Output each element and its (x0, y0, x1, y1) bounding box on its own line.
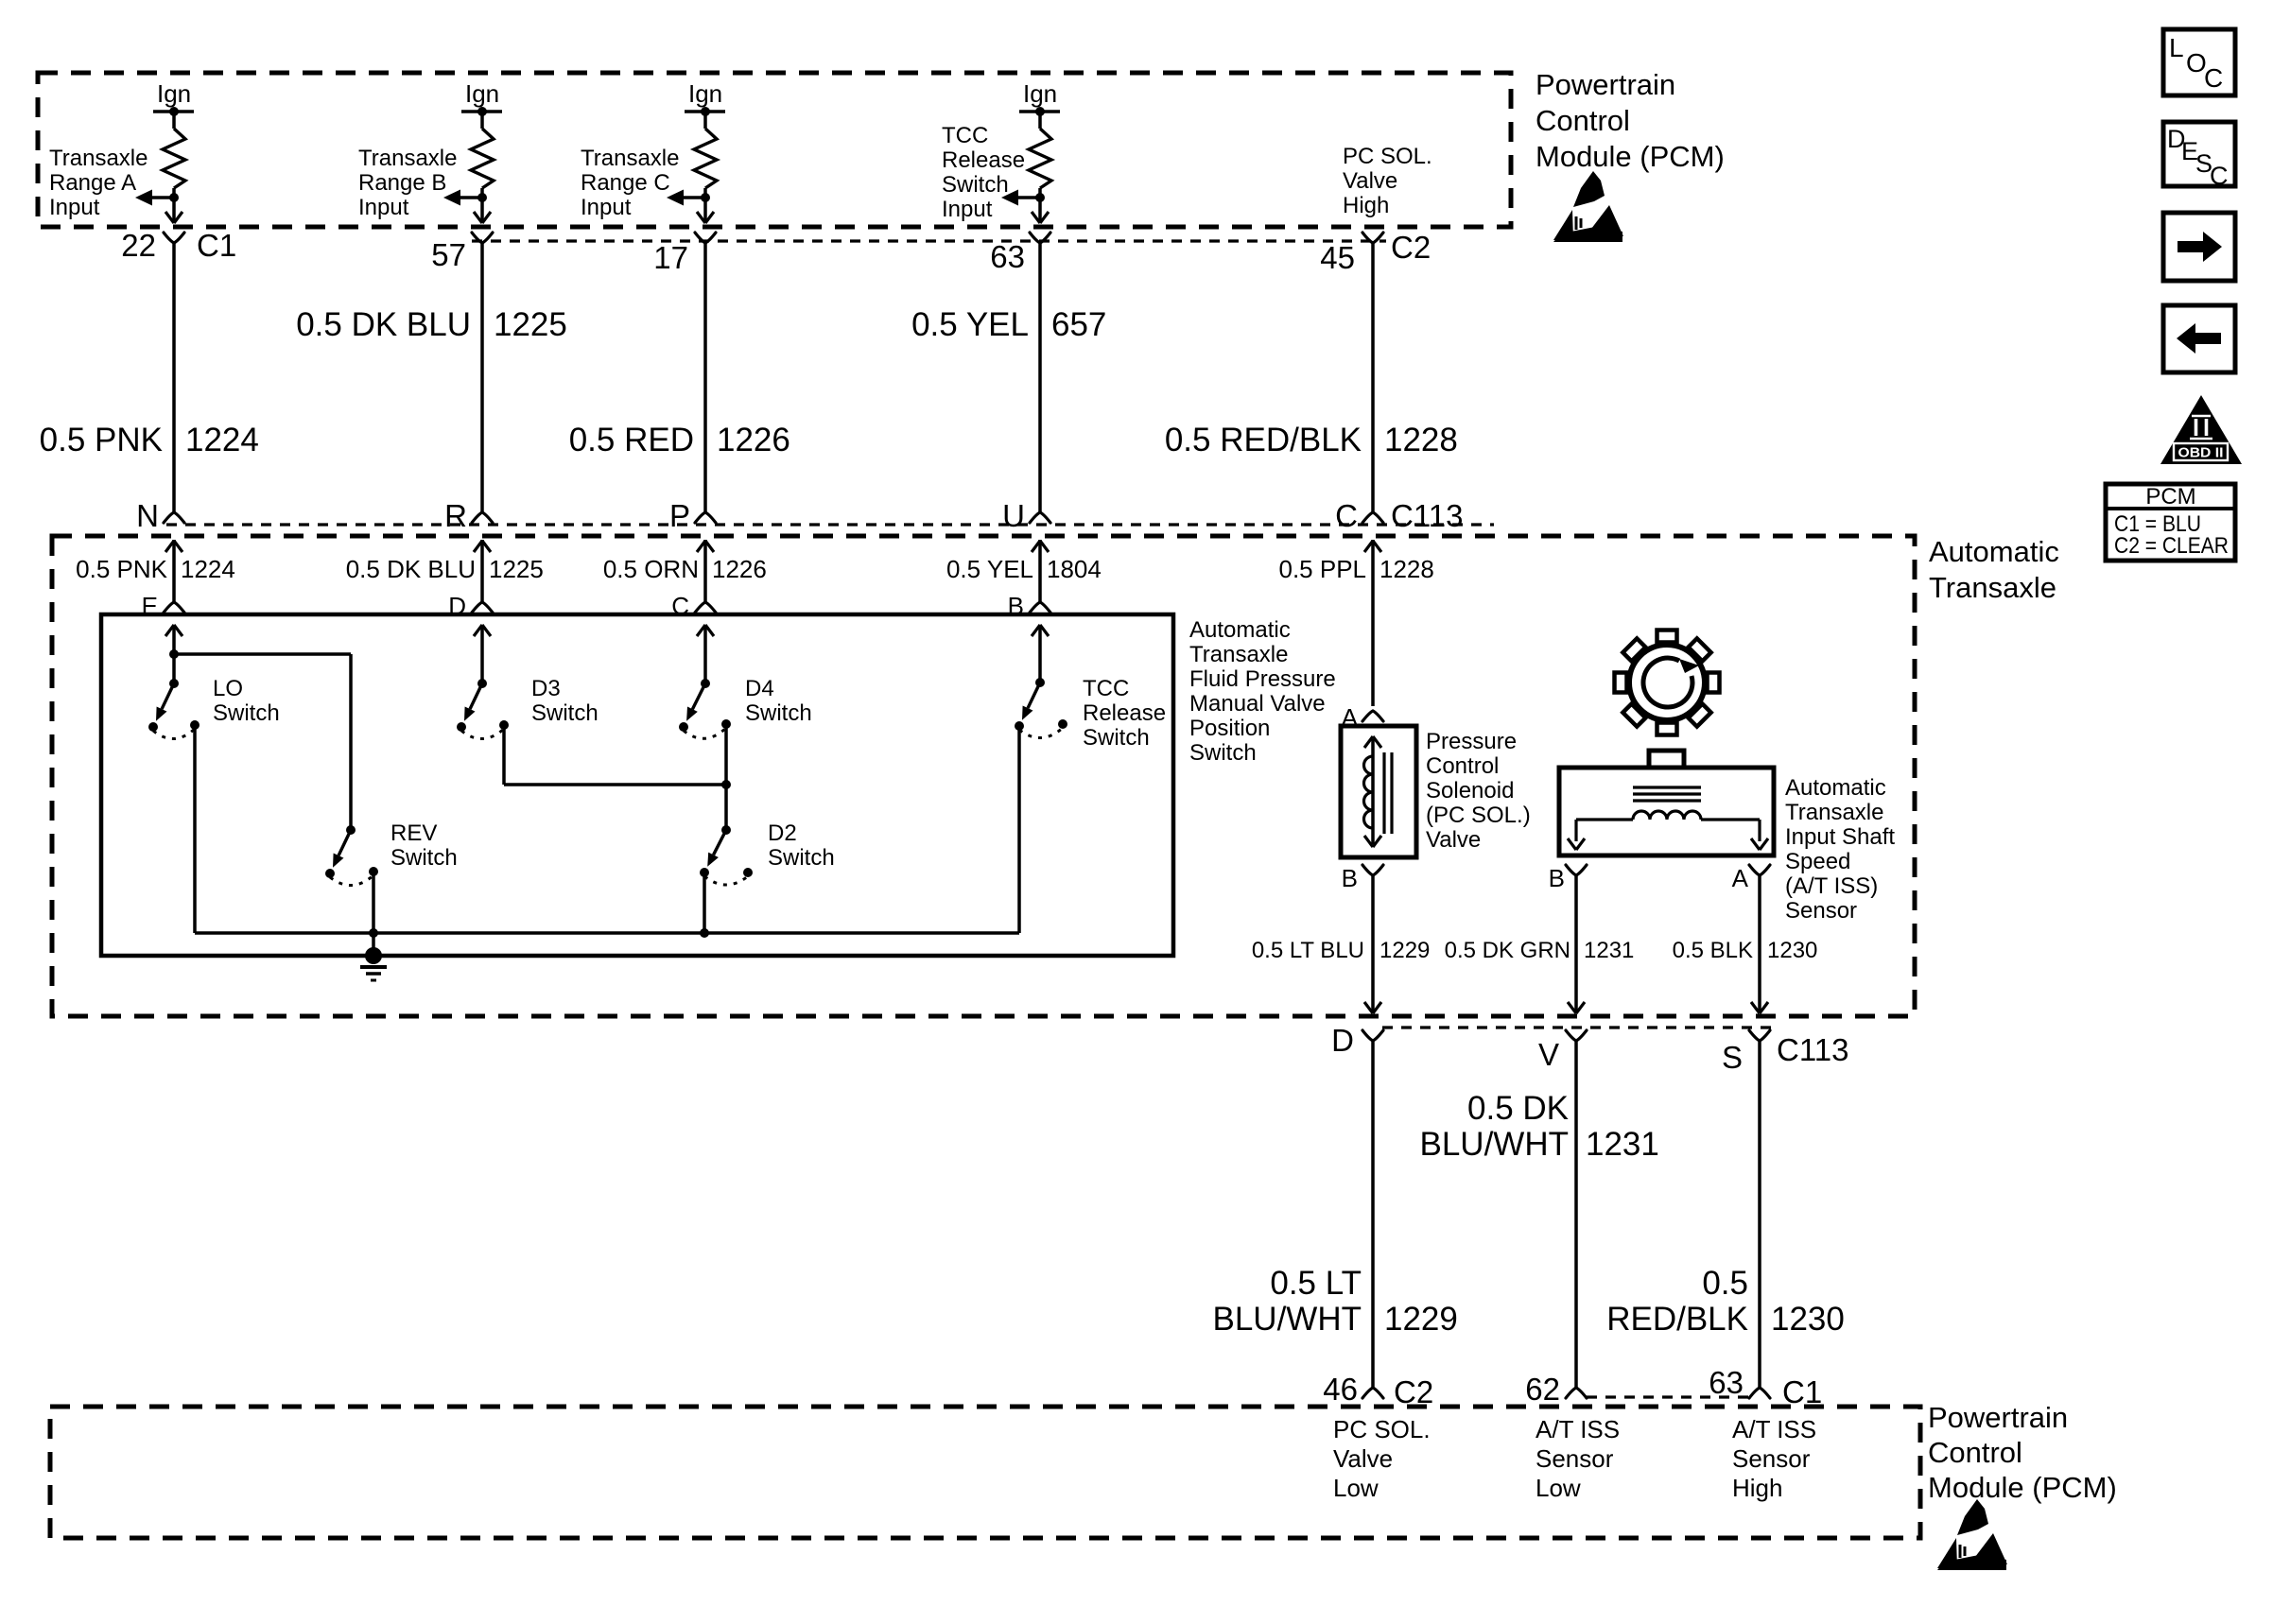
wire to connector (Transaxle Range C) (697, 198, 714, 223)
connector pin P C113 (669, 498, 690, 533)
svg-text:Powertrain: Powertrain (1928, 1401, 2068, 1434)
svg-text:Transaxle: Transaxle (1189, 642, 1288, 667)
pin C (position switch) (671, 592, 689, 620)
wire 0.5 PNK 1224 into transaxle (164, 540, 184, 613)
wire to connector (TCC Release) (1032, 198, 1049, 223)
svg-text:C: C (2204, 63, 2223, 93)
wire 0.5 RED/BLK 1230 (1749, 1041, 1770, 1398)
wire label 0.5 BLK 1230 (1673, 938, 1818, 963)
label: A/T ISS Sensor Low (1536, 1415, 1620, 1502)
wire label 0.5 PNK 1224 (40, 422, 259, 458)
wire entering switch box (697, 625, 714, 683)
connector C1 pin 22 (121, 228, 236, 263)
svg-text:Module (PCM): Module (PCM) (1536, 140, 1725, 173)
switch REV (325, 825, 378, 886)
wire 0.5 RED 1226 (695, 243, 716, 523)
wire REV to ground (369, 872, 378, 956)
wire label 0.5 YEL 657 (911, 306, 1106, 343)
input arrow (TCC Release) (1001, 190, 1040, 206)
svg-text:BLU/WHT: BLU/WHT (1213, 1301, 1362, 1338)
svg-text:Switch: Switch (213, 700, 280, 726)
connector pin 46 C2 (1323, 1372, 1433, 1409)
svg-text:0.5 YEL: 0.5 YEL (946, 555, 1033, 583)
svg-text:Low: Low (1333, 1474, 1379, 1502)
svg-text:0.5 DK: 0.5 DK (1467, 1090, 1569, 1127)
label: REV Switch (390, 821, 458, 871)
wire 0.5 ORN 1226 into transaxle (695, 540, 716, 613)
svg-text:C2: C2 (1394, 1374, 1433, 1409)
svg-text:657: 657 (1051, 306, 1106, 343)
connector pin 57 (431, 233, 493, 272)
svg-text:1225: 1225 (494, 306, 567, 343)
svg-text:Control: Control (1426, 753, 1499, 779)
switch D4 (679, 679, 731, 738)
svg-text:Ign: Ign (465, 79, 499, 108)
svg-text:PC SOL.: PC SOL. (1343, 144, 1432, 169)
label: Transaxle Range C Input (581, 146, 679, 220)
table: PCM connector legend (2106, 484, 2235, 561)
svg-text:D2: D2 (768, 821, 797, 846)
svg-text:Automatic: Automatic (1189, 617, 1291, 643)
label: Powertrain Control Module (PCM) (top) (1536, 68, 1725, 173)
svg-text:Ign: Ign (157, 79, 191, 108)
label: TCC Release Switch Input (942, 123, 1025, 222)
svg-text:C2 = CLEAR: C2 = CLEAR (2114, 533, 2229, 559)
Automatic Transaxle box (52, 536, 1915, 1016)
solenoid pin B (1342, 864, 1383, 892)
fluid pressure manual valve position switch box (101, 614, 1173, 956)
svg-text:Manual Valve: Manual Valve (1189, 691, 1326, 717)
svg-text:0.5 PPL: 0.5 PPL (1278, 555, 1366, 583)
connector pin S C113 (1722, 1030, 1770, 1075)
icon: OBD II triangle (2160, 395, 2242, 464)
svg-text:46: 46 (1323, 1372, 1358, 1407)
connector pin U C113 (1002, 498, 1025, 533)
svg-text:Input: Input (49, 195, 100, 220)
icon: LOC box (2163, 29, 2235, 95)
svg-text:1224: 1224 (185, 422, 259, 458)
svg-text:Switch: Switch (1189, 740, 1257, 766)
svg-text:Transaxle: Transaxle (358, 146, 457, 171)
svg-text:LO: LO (213, 676, 243, 701)
svg-text:0.5 PNK: 0.5 PNK (76, 555, 167, 583)
svg-text:Switch: Switch (768, 845, 835, 871)
wire label 0.5 ORN 1226 (603, 555, 767, 583)
svg-text:17: 17 (653, 240, 688, 275)
svg-text:0.5 BLK: 0.5 BLK (1673, 938, 1753, 963)
switch LO (148, 679, 200, 739)
label: Powertrain Control Module (PCM) (bottom) (1928, 1401, 2117, 1504)
connector line C2 (fine dashed) (472, 239, 1386, 242)
svg-text:62: 62 (1525, 1372, 1560, 1407)
wire 0.5 DK BLU 1225 into transaxle (472, 540, 493, 613)
svg-text:Sensor: Sensor (1536, 1444, 1614, 1473)
wire label 0.5 DK GRN 1231 (1445, 938, 1635, 963)
svg-text:Powertrain: Powertrain (1536, 68, 1675, 101)
wire label 0.5 LT BLU/WHT 1229 (1213, 1265, 1458, 1338)
ground bus wire (195, 931, 1019, 935)
svg-text:PC SOL.: PC SOL. (1333, 1415, 1431, 1443)
svg-text:Speed: Speed (1785, 849, 1850, 874)
svg-text:Sensor: Sensor (1732, 1444, 1811, 1473)
svg-text:Valve: Valve (1343, 168, 1397, 194)
svg-text:L: L (2169, 33, 2184, 62)
connector line C113 (bottom, fine dashed) (1382, 1026, 1776, 1028)
Ign feed node (Transaxle Range A) (153, 79, 194, 116)
svg-text:S: S (1722, 1040, 1743, 1075)
svg-text:Switch: Switch (942, 172, 1009, 198)
svg-text:REV: REV (390, 821, 437, 846)
switch D3 (457, 679, 509, 739)
wire label 0.5 DK BLU 1225 (296, 306, 567, 343)
svg-text:0.5 DK BLU: 0.5 DK BLU (346, 555, 476, 583)
pin B (position switch) (1008, 592, 1024, 620)
svg-text:0.5 ORN: 0.5 ORN (603, 555, 699, 583)
wire label 0.5 DK BLU 1225 (346, 555, 544, 583)
wire label 0.5 PPL 1228 (1278, 555, 1433, 583)
svg-text:Range C: Range C (581, 170, 670, 196)
wire to connector (Transaxle Range A) (165, 198, 182, 223)
wire 0.5 DK BLU/WHT 1231 (1566, 1041, 1587, 1398)
svg-text:Range B: Range B (358, 170, 446, 196)
connector pin N C113 (136, 498, 159, 533)
svg-text:0.5 LT BLU: 0.5 LT BLU (1252, 938, 1364, 963)
label C113 (middle) (1391, 498, 1463, 533)
connector pin D C113 (1331, 1023, 1383, 1058)
resistor pull-up (TCC Release) (1029, 112, 1051, 188)
svg-text:OBD II: OBD II (2178, 446, 2224, 461)
svg-text:0.5: 0.5 (1702, 1265, 1748, 1302)
svg-text:Sensor: Sensor (1785, 898, 1857, 924)
connector pin 62 (1525, 1372, 1560, 1407)
PCM module box (bottom) (50, 1407, 1920, 1538)
wire label 0.5 RED 1226 (569, 422, 790, 458)
svg-text:Transaxle: Transaxle (49, 146, 147, 171)
wire 0.5 PPL to PC solenoid pin A (1342, 703, 1383, 732)
wire 0.5 BLK 1230 (1751, 875, 1768, 1013)
resistor pull-up (Transaxle Range B) (471, 112, 494, 188)
svg-text:High: High (1343, 193, 1389, 218)
svg-text:Transaxle: Transaxle (1785, 800, 1883, 825)
svg-text:63: 63 (990, 239, 1025, 274)
svg-text:PCM: PCM (2145, 484, 2195, 510)
svg-text:Solenoid: Solenoid (1426, 778, 1514, 803)
svg-text:Low: Low (1536, 1474, 1581, 1502)
input arrow (Transaxle Range A) (135, 190, 174, 206)
wire entering switch box (165, 625, 182, 683)
svg-text:R: R (444, 498, 467, 533)
svg-text:P: P (669, 498, 690, 533)
svg-text:Control: Control (1928, 1436, 2022, 1469)
svg-text:C: C (2210, 162, 2229, 190)
icon: right arrow box (2163, 213, 2235, 281)
svg-text:0.5 LT: 0.5 LT (1270, 1265, 1362, 1302)
svg-text:1224: 1224 (181, 555, 235, 583)
wire 0.5 DK GRN 1231 (1568, 875, 1585, 1013)
wire 0.5 LT BLU/WHT 1229 (1362, 1041, 1383, 1398)
svg-text:Input: Input (358, 195, 409, 220)
connector pin C C113 (1335, 498, 1358, 533)
svg-text:C1: C1 (1782, 1374, 1822, 1409)
wire 0.5 PPL 1228 into transaxle (1364, 540, 1381, 706)
svg-text:1230: 1230 (1767, 938, 1817, 963)
wire entering switch box (1032, 625, 1049, 683)
wire 0.5 DK BLU 1225 (472, 243, 493, 523)
label: D2 Switch (768, 821, 835, 871)
wire 0.5 YEL 1804 into transaxle (1030, 540, 1050, 613)
pin D (position switch) (448, 592, 466, 620)
svg-text:1804: 1804 (1047, 555, 1102, 583)
wire + node (TCC Release) (1035, 188, 1045, 202)
icon: DESC box (2163, 122, 2235, 190)
svg-text:1226: 1226 (712, 555, 767, 583)
svg-text:BLU/WHT: BLU/WHT (1420, 1126, 1570, 1163)
svg-text:1225: 1225 (489, 555, 544, 583)
pin E (position switch) (142, 592, 158, 620)
label: Automatic Transaxle Fluid Pressure Manual Valve Position Switch (1189, 617, 1336, 766)
svg-text:0.5 YEL: 0.5 YEL (911, 306, 1029, 343)
svg-text:Release: Release (942, 147, 1025, 173)
svg-text:Valve: Valve (1333, 1444, 1393, 1473)
Ign feed node (Transaxle Range B) (461, 79, 502, 116)
svg-text:22: 22 (121, 228, 156, 263)
svg-text:Module (PCM): Module (PCM) (1928, 1471, 2117, 1504)
svg-text:1226: 1226 (717, 422, 790, 458)
svg-text:0.5 PNK: 0.5 PNK (40, 422, 163, 458)
wire 0.5 YEL 657 (1030, 243, 1050, 523)
svg-text:1231: 1231 (1586, 1126, 1659, 1163)
svg-text:Transaxle: Transaxle (581, 146, 679, 171)
label: D4 Switch (745, 676, 812, 726)
svg-text:C2: C2 (1391, 230, 1431, 265)
connector pin 63 C1 (1709, 1365, 1822, 1409)
svg-text:U: U (1002, 498, 1025, 533)
wire label 0.5 PNK 1224 (76, 555, 235, 583)
svg-text:Switch: Switch (390, 845, 458, 871)
wire D3 to D4/D2 junction (504, 725, 726, 785)
svg-text:Control: Control (1536, 104, 1630, 137)
svg-text:A/T ISS: A/T ISS (1732, 1415, 1816, 1443)
svg-text:Ign: Ign (1023, 79, 1057, 108)
svg-text:Fluid Pressure: Fluid Pressure (1189, 666, 1336, 692)
svg-text:Input Shaft: Input Shaft (1785, 824, 1895, 850)
wire entering switch box (474, 625, 491, 683)
gear icon (input shaft) (1615, 631, 1720, 735)
connector line C113 (middle, fine dashed) (166, 523, 1494, 526)
connector pin V C113 (1538, 1030, 1587, 1072)
switch D2 (700, 825, 753, 885)
svg-text:TCC: TCC (942, 123, 988, 148)
label: A/T ISS Sensor High (1732, 1415, 1816, 1502)
label: Automatic Transaxle Input Shaft Speed (A/T ISS) Sensor (1785, 775, 1895, 924)
svg-text:Pressure: Pressure (1426, 729, 1517, 754)
svg-text:V: V (1538, 1037, 1559, 1072)
svg-text:1229: 1229 (1384, 1301, 1458, 1338)
svg-text:Switch: Switch (531, 700, 599, 726)
svg-text:RED/BLK: RED/BLK (1606, 1301, 1748, 1338)
wire 0.5 LT BLU 1229 (in transaxle) (1364, 875, 1381, 1013)
Ign feed node (TCC Release) (1019, 79, 1060, 116)
svg-text:D3: D3 (531, 676, 561, 701)
wire label 0.5 YEL 1804 (946, 555, 1102, 583)
svg-text:Release: Release (1083, 700, 1166, 726)
svg-text:(PC SOL.): (PC SOL.) (1426, 803, 1531, 828)
svg-text:Valve: Valve (1426, 827, 1481, 853)
svg-text:0.5 DK BLU: 0.5 DK BLU (296, 306, 471, 343)
label: Transaxle Range A Input (49, 146, 147, 220)
svg-text:0.5 DK GRN: 0.5 DK GRN (1445, 938, 1570, 963)
label: LO Switch (213, 676, 280, 726)
svg-text:Automatic: Automatic (1785, 775, 1886, 801)
svg-text:1229: 1229 (1379, 938, 1430, 963)
wire LO to ground bus (193, 725, 197, 933)
svg-text:C1: C1 (197, 228, 236, 263)
svg-text:1231: 1231 (1584, 938, 1634, 963)
svg-text:1228: 1228 (1379, 555, 1434, 583)
ground (360, 947, 387, 980)
wire label 0.5 LT BLU 1229 (1252, 938, 1431, 963)
label: PC SOL. Valve High (1343, 144, 1432, 218)
wire + node (Transaxle Range A) (169, 188, 179, 202)
sensor pin A (1732, 864, 1770, 892)
wire D2 to ground bus (700, 872, 709, 938)
sensor internals (1568, 787, 1768, 850)
wire label 0.5 RED/BLK 1228 (1165, 422, 1458, 458)
ESD sensitivity symbol (top) (1553, 171, 1623, 242)
PCM module box (top) (38, 73, 1511, 227)
input arrow (Transaxle Range B) (443, 190, 482, 206)
sensor pin B (1549, 864, 1587, 892)
svg-text:C113: C113 (1391, 498, 1463, 533)
node (LO branch) (169, 649, 351, 830)
svg-text:Range A: Range A (49, 170, 136, 196)
svg-text:A: A (1732, 864, 1749, 892)
resistor pull-up (Transaxle Range C) (694, 112, 717, 188)
svg-text:C: C (1335, 498, 1358, 533)
Ign feed node (Transaxle Range C) (685, 79, 725, 116)
svg-text:B: B (1342, 864, 1358, 892)
wire label 0.5 RED/BLK 1230 (1606, 1265, 1845, 1338)
label: Pressure Control Solenoid (PC SOL.) Valve (1426, 729, 1531, 853)
label: Automatic Transaxle (1929, 535, 2059, 604)
svg-text:0.5 RED: 0.5 RED (569, 422, 694, 458)
svg-text:N: N (136, 498, 159, 533)
label: D3 Switch (531, 676, 599, 726)
input arrow (Transaxle Range C) (667, 190, 705, 206)
wire + node (Transaxle Range C) (701, 188, 710, 202)
connector pin 17 (653, 233, 716, 275)
solenoid PC SOL valve box (1341, 726, 1416, 857)
icon: left arrow box (2163, 305, 2235, 372)
connector pin 45 C2 (1320, 230, 1431, 275)
wire label 0.5 DK BLU/WHT 1231 (1420, 1090, 1659, 1163)
svg-text:1230: 1230 (1771, 1301, 1845, 1338)
svg-text:TCC: TCC (1083, 676, 1129, 701)
svg-text:Switch: Switch (745, 700, 812, 726)
svg-text:1228: 1228 (1384, 422, 1458, 458)
resistor pull-up (Transaxle Range A) (163, 112, 185, 188)
svg-text:Automatic: Automatic (1929, 535, 2059, 568)
svg-text:B: B (1549, 864, 1565, 892)
svg-text:Switch: Switch (1083, 725, 1150, 751)
wire to connector (Transaxle Range B) (474, 198, 491, 223)
label C113 (bottom) (1777, 1032, 1848, 1067)
label: PC SOL. Valve Low (1333, 1415, 1431, 1502)
wire + node (Transaxle Range B) (477, 188, 487, 202)
svg-text:57: 57 (431, 237, 466, 272)
sensor A/T ISS box (1559, 751, 1774, 855)
svg-text:High: High (1732, 1474, 1782, 1502)
svg-text:Transaxle: Transaxle (1929, 571, 2056, 604)
label: TCC Release Switch (1083, 676, 1166, 751)
svg-text:D: D (1331, 1023, 1354, 1058)
svg-text:D4: D4 (745, 676, 774, 701)
svg-text:(A/T ISS): (A/T ISS) (1785, 873, 1878, 899)
svg-text:63: 63 (1709, 1365, 1744, 1400)
connector pin 63 (990, 233, 1050, 274)
svg-text:45: 45 (1320, 240, 1355, 275)
wire TCC contact to ground bus (1017, 726, 1021, 933)
svg-text:Input: Input (942, 197, 993, 222)
connector line C1 (bottom, fine dashed) (1587, 1395, 1749, 1398)
ESD sensitivity symbol (bottom) (1937, 1499, 2007, 1570)
svg-text:C113: C113 (1777, 1032, 1848, 1067)
svg-text:0.5 RED/BLK: 0.5 RED/BLK (1165, 422, 1362, 458)
wire 0.5 PNK 1224 (164, 243, 184, 523)
svg-text:A/T ISS: A/T ISS (1536, 1415, 1620, 1443)
connector pin R C113 (444, 498, 467, 533)
wire 0.5 RED/BLK 1228 (1362, 243, 1383, 523)
switch TCC Release (1015, 678, 1067, 738)
label: Transaxle Range B Input (358, 146, 457, 220)
solenoid internals (1364, 736, 1393, 847)
wire D4 to D2 (721, 724, 731, 830)
svg-text:Position: Position (1189, 716, 1270, 741)
svg-text:Ign: Ign (688, 79, 722, 108)
svg-text:Input: Input (581, 195, 632, 220)
